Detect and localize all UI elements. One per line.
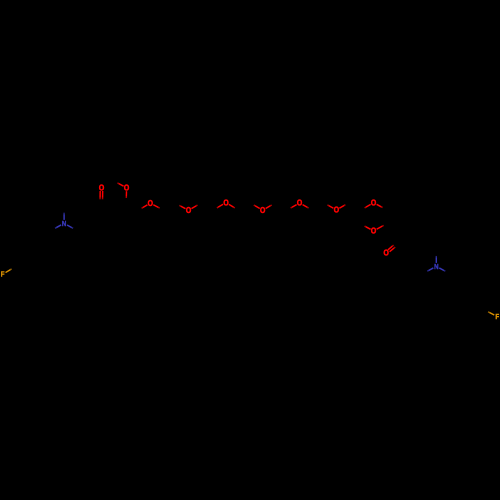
wire bond D3-N2 bbox=[435, 252, 437, 263]
fluorine F2 label bbox=[495, 313, 499, 321]
wire bond A4-B1 bbox=[40, 247, 52, 254]
wire bond L4-L5 bbox=[113, 222, 125, 231]
wire bond O7-R1 bbox=[377, 204, 386, 209]
nitrogen N2 label bbox=[434, 264, 439, 272]
wire bond D2-D3 bbox=[423, 245, 436, 253]
wire bond P5-P6 bbox=[238, 203, 250, 210]
wire bond Ck2-D1 bbox=[398, 243, 411, 251]
wire bond E3-E2 bbox=[64, 205, 76, 209]
wire bond L0-L1 bbox=[114, 202, 126, 209]
wire bond O4-P7 bbox=[266, 203, 275, 208]
svg-text:O: O bbox=[371, 226, 377, 236]
wire bond R1-R2 bbox=[386, 209, 388, 223]
wire bond A5-A6 bbox=[16, 246, 28, 253]
fluorine F1 label bbox=[1, 271, 5, 279]
wire bond P11-P12 bbox=[349, 203, 361, 210]
wire bond P7-P8 bbox=[275, 203, 287, 210]
wire bond P1-P2 bbox=[163, 204, 176, 210]
ketone oxygen O (right) label bbox=[384, 248, 390, 258]
wire bond R6-R1 bbox=[386, 202, 398, 210]
wire bond B2-N1 bbox=[52, 225, 62, 230]
wire bond Q6-Q1 bbox=[484, 295, 485, 310]
svg-text:F: F bbox=[495, 313, 499, 321]
wire bond O1-P1 bbox=[153, 205, 163, 210]
wire bond D1-D2 bbox=[411, 245, 423, 252]
ether oxygen O7 label bbox=[371, 198, 377, 208]
svg-text:N: N bbox=[62, 221, 67, 229]
wire bond P9-P10 bbox=[312, 203, 324, 210]
wire bond L5-L0 bbox=[112, 208, 114, 222]
wire bond P12-O7 bbox=[361, 204, 370, 209]
wire bond Ck1-Ok1 bbox=[100, 191, 103, 205]
wire bond Q1-F2 bbox=[485, 310, 495, 315]
svg-text:F: F bbox=[1, 271, 5, 279]
svg-text:O: O bbox=[260, 205, 266, 215]
wire bond A3-A4 bbox=[39, 254, 42, 268]
svg-text:O: O bbox=[148, 198, 154, 208]
wire bond L2-O1 bbox=[138, 205, 147, 210]
wire bond R4-R5 bbox=[409, 209, 411, 223]
wire bond R2-R3 bbox=[388, 223, 400, 231]
svg-text:O: O bbox=[371, 198, 377, 208]
wire bond Q1-Q2 bbox=[472, 310, 484, 317]
svg-text:O: O bbox=[99, 183, 105, 193]
wire bond O2-P3 bbox=[191, 203, 200, 208]
wire bond O6-P11 bbox=[339, 203, 348, 208]
wire bond Q2-Q3 bbox=[460, 310, 472, 317]
wire bond R3-Ck2 bbox=[398, 231, 400, 244]
svg-text:O: O bbox=[124, 183, 130, 193]
wire bond B1-B2 bbox=[51, 230, 54, 247]
wire bond P4-O3 bbox=[213, 204, 223, 210]
svg-text:O: O bbox=[384, 248, 390, 258]
wire bond P8-O5 bbox=[287, 205, 296, 210]
wire bond N1-E3 bbox=[63, 209, 65, 220]
ether oxygen O6 label bbox=[334, 205, 340, 215]
wire bond L1-Om1 bbox=[125, 191, 127, 202]
wire bond Q4-Q5 bbox=[459, 289, 471, 296]
wire bond R2-Om2 bbox=[377, 223, 388, 229]
wire bond P6-O4 bbox=[250, 203, 259, 208]
wire bond R5-R6 bbox=[397, 202, 409, 209]
ether oxygen O4 label bbox=[260, 205, 266, 215]
wire bond Q5-Q6 bbox=[471, 289, 483, 296]
wire bond E1-Ck1 bbox=[89, 205, 101, 212]
wire bond A2-A3 bbox=[28, 268, 40, 275]
svg-text:O: O bbox=[334, 205, 340, 215]
wire bond N1-M1 bbox=[67, 225, 76, 230]
wire bond Q3-Q4 bbox=[458, 296, 461, 310]
wire bond L3-L4 bbox=[126, 224, 138, 231]
wire bond Om1-Me1 bbox=[114, 181, 124, 186]
wire bond E2-E1 bbox=[76, 205, 88, 212]
ketone oxygen O (left) label bbox=[99, 183, 105, 193]
svg-text:O: O bbox=[223, 198, 229, 208]
methoxy oxygen O (right) label bbox=[371, 226, 377, 236]
wire bond G2-Q4 bbox=[447, 289, 459, 296]
ether oxygen O1 label bbox=[148, 198, 154, 208]
nitrogen N1 label bbox=[62, 221, 67, 229]
ether oxygen O2 label bbox=[186, 205, 192, 215]
svg-text:O: O bbox=[297, 198, 303, 208]
wire bond R3-R4 bbox=[400, 223, 412, 231]
wire bond N2-M2 bbox=[424, 268, 433, 273]
ether oxygen O3 label bbox=[223, 198, 229, 208]
wire bond Ck2-Ok2 bbox=[388, 242, 398, 251]
wire bond A6-A1 bbox=[14, 253, 17, 267]
wire bond Om2-Me2 bbox=[361, 224, 370, 229]
wire bond Ck1-L0 bbox=[101, 205, 114, 209]
wire bond P2-O2 bbox=[176, 204, 186, 209]
wire bond O3-P5 bbox=[229, 204, 238, 210]
wire bond A4-A5 bbox=[28, 246, 40, 253]
methoxy oxygen O (left) label bbox=[124, 183, 130, 193]
wire bond L2-L3 bbox=[137, 210, 139, 224]
wire bond P10-O6 bbox=[324, 203, 333, 208]
svg-text:O: O bbox=[186, 205, 192, 215]
wire bond L1-L2 bbox=[126, 202, 138, 211]
wire bond A1-A2 bbox=[15, 267, 28, 274]
wire bond O5-P9 bbox=[303, 205, 312, 210]
ether oxygen O5 label bbox=[297, 198, 303, 208]
wire bond N2-G1 bbox=[439, 268, 448, 273]
svg-text:N: N bbox=[434, 264, 439, 272]
wire bond F1-A1 bbox=[6, 267, 15, 273]
wire bond P3-P4 bbox=[201, 203, 213, 210]
wire bond G1-G2 bbox=[447, 273, 449, 289]
